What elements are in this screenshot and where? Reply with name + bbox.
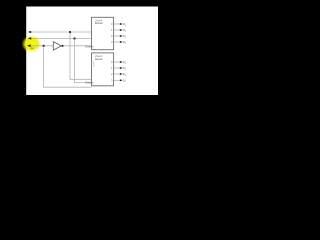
svg-text:Decoder: Decoder	[95, 21, 103, 25]
svg-text:Enable: Enable	[86, 45, 95, 49]
svg-text:Decoder: Decoder	[95, 57, 103, 61]
svg-text:Enable: Enable	[86, 80, 95, 84]
